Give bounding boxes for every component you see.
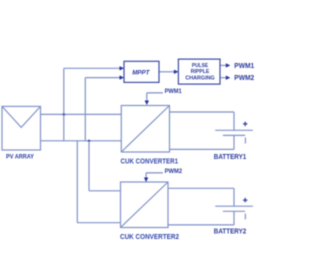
svg-text:RIPPLE: RIPPLE [191,69,210,75]
svg-text:PV ARRAY: PV ARRAY [6,154,35,161]
svg-text:CUK CONVERTER2: CUK CONVERTER2 [120,232,179,241]
svg-text:PWM1: PWM1 [234,63,254,70]
svg-text:PWM2: PWM2 [165,168,183,175]
svg-text:PWM1: PWM1 [165,88,182,95]
svg-text:CUK CONVERTER1: CUK CONVERTER1 [121,157,179,166]
svg-text:PULSE: PULSE [192,63,208,69]
svg-text:CHARGING: CHARGING [185,75,215,81]
svg-text:BATTERY2: BATTERY2 [214,226,247,235]
svg-text:BATTERY1: BATTERY1 [214,152,247,161]
svg-text:PWM2: PWM2 [234,75,254,82]
svg-text:MPPT: MPPT [132,69,150,76]
